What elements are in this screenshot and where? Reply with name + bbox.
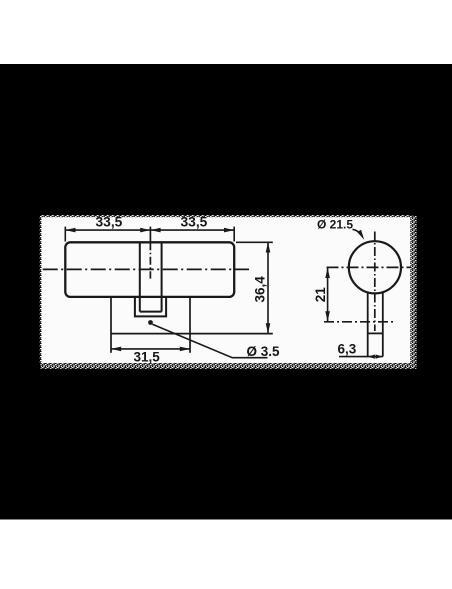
arrowhead right of 31,5 xyxy=(180,347,190,352)
leader line to hole label xyxy=(152,324,267,357)
arrowhead of circle leader xyxy=(357,230,364,240)
arrowhead left of top dimension xyxy=(65,228,75,233)
dimension 36,4 vertical line xyxy=(267,242,269,333)
arrowhead left of 6,3 xyxy=(368,355,375,359)
plate bottom line + 36,4 lower extension xyxy=(111,333,273,335)
leader curve from label to circle xyxy=(353,229,362,235)
svg-text:33,5: 33,5 xyxy=(181,215,208,230)
top white band xyxy=(0,0,452,64)
drawing sheet white rectangle xyxy=(40,216,411,364)
dither band right edge of sheet xyxy=(410,216,416,368)
dither band bottom edge of sheet xyxy=(40,363,416,369)
inner cup bottom xyxy=(140,311,162,313)
svg-text:Ø 3.5: Ø 3.5 xyxy=(247,344,281,359)
dimension 31,5 line xyxy=(111,348,190,350)
stem bottom + 6,3 dimension shelf xyxy=(339,356,383,358)
knob circle xyxy=(349,241,401,293)
arrowhead top of 36,4 xyxy=(266,242,271,252)
outer cup collar xyxy=(135,297,166,317)
svg-text:Ø 21.5: Ø 21.5 xyxy=(317,218,353,232)
svg-text:36,4: 36,4 xyxy=(253,276,268,303)
dither strip left edge of sheet xyxy=(40,216,42,363)
arrowhead right of top dimension xyxy=(224,228,234,233)
arrowhead top of 21 xyxy=(325,268,330,278)
horizontal axis of knob xyxy=(327,266,411,268)
bottom white band xyxy=(0,520,452,585)
stem step line xyxy=(368,332,383,334)
arrowhead middle-right of top dimension xyxy=(150,228,160,233)
stem bottom reference dash line xyxy=(324,321,395,323)
svg-text:21: 21 xyxy=(313,287,328,303)
arrowhead middle-left of top dimension xyxy=(140,228,150,233)
dimension 36,4: top extension xyxy=(236,241,273,243)
arrowhead right of 6,3 xyxy=(376,355,383,359)
keyway axis extension above body xyxy=(149,227,151,243)
central section left wall xyxy=(139,242,141,311)
keyway vertical axis xyxy=(149,242,151,278)
dimension line 33,5 + 33,5 xyxy=(65,229,234,231)
black middle band xyxy=(0,64,452,520)
svg-text:6,3: 6,3 xyxy=(338,341,357,356)
vertical axis of knob xyxy=(374,232,376,332)
stem right wall xyxy=(382,292,384,356)
svg-text:31,5: 31,5 xyxy=(134,349,161,364)
mounting plate left side + 31,5 extension xyxy=(110,297,112,353)
arrowhead bottom of 21 xyxy=(325,311,330,321)
fixing hole dot xyxy=(148,320,153,325)
dimension 33,5 left: extension lines xyxy=(65,227,234,242)
svg-text:33,5: 33,5 xyxy=(96,215,123,230)
arrowhead bottom of 36,4 xyxy=(266,323,271,333)
stem left wall xyxy=(367,292,369,356)
central section right wall xyxy=(161,242,163,311)
horizontal centerline left view xyxy=(43,268,249,270)
arrowhead left of 31,5 xyxy=(111,347,121,352)
cylinder body outline xyxy=(65,242,234,297)
mounting plate right side + 31,5 extension xyxy=(189,297,191,353)
dither strip top edge of sheet xyxy=(40,215,411,217)
dimension 21 vertical line xyxy=(327,268,329,322)
